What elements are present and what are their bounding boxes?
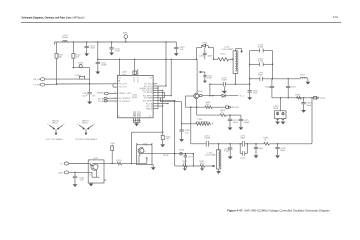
wire vertical x97.8 rail to bias (97, 42, 98, 60)
capacitor C271 (239, 115, 251, 127)
wire bus vertical x174.7 (174, 101, 176, 166)
svg-text:SFB+: SFB+ (123, 32, 129, 34)
wire resonator line y78.8 (249, 78, 300, 79)
wire IC right pin stubs (153, 84, 175, 109)
svg-text:VCO TOP SHIELD: VCO TOP SHIELD (46, 139, 64, 141)
wire vertical x209.9 (209, 84, 210, 96)
wire left long y83.8 (45, 84, 118, 85)
wire E253 line y153.7 (152, 153, 193, 154)
capacitor C252 (96, 59, 108, 71)
capacitor C275 parallel rung (240, 144, 247, 160)
ferrite bead E253 (179, 150, 185, 155)
svg-text:Schematic Diagrams, Overlays,: Schematic Diagrams, Overlays, and Parts … (22, 17, 86, 20)
svg-text:E253: E253 (179, 150, 185, 152)
svg-text:TX_SUPPLY: TX_SUPPLY (119, 101, 131, 103)
resistor R257 zigzag (218, 54, 229, 61)
wire bias line y132.2 (131, 132, 164, 165)
wire coil top tap (235, 49, 242, 53)
capacitor C258 tap with arrow (199, 71, 213, 83)
svg-text:C256: C256 (199, 56, 205, 58)
svg-text:R254: R254 (117, 160, 123, 162)
capacitor C274 series in rail (240, 135, 246, 146)
svg-text:.1uF: .1uF (79, 180, 84, 182)
wire through Q252 bottom (131, 162, 146, 164)
wire Q254 base (185, 96, 193, 107)
svg-text:COILCRAFT: COILCRAFT (205, 154, 218, 157)
svg-text:4.7pF: 4.7pF (207, 77, 213, 79)
capacitor C253 (85, 42, 96, 53)
resistor R254 zigzag (117, 160, 123, 165)
capacitor C262 (82, 92, 91, 101)
resistor R261 zigzag (182, 161, 188, 167)
net flag TX_IO (33, 83, 45, 87)
svg-text:COILCRAFT: COILCRAFT (196, 120, 209, 123)
capacitor C257 series (222, 78, 228, 87)
wire coil line y123.8 (181, 123, 213, 124)
ground stub under C257 (222, 86, 227, 93)
shield arrow 2 (75, 121, 98, 141)
capacitor C259 (258, 45, 264, 53)
inductor L253 (300, 74, 307, 78)
svg-text:.1uF: .1uF (122, 74, 127, 76)
svg-text:10uF: 10uF (253, 93, 258, 95)
svg-text:.1uF: .1uF (179, 49, 184, 51)
wire IC top pin 2 (122, 69, 138, 76)
svg-text:VCC2: VCC2 (137, 76, 139, 82)
svg-text:RX_IO: RX_IO (33, 79, 40, 81)
ground under U251 (134, 123, 139, 126)
capacitor C273 (224, 144, 232, 157)
net flag TX supply (98, 100, 117, 103)
wire coil bottom (235, 73, 236, 84)
capacitor C272 series (204, 135, 211, 146)
svg-text:PRESC_OUT: PRESC_OUT (119, 93, 132, 95)
svg-text:D252: D252 (221, 91, 227, 93)
wire pin tap to C264 (160, 98, 181, 130)
svg-text:RX_BUFF: RX_BUFF (143, 100, 153, 102)
svg-text:COILCRAFT: COILCRAFT (222, 48, 235, 51)
capacitor C269 (301, 98, 312, 110)
svg-text:Q251: Q251 (93, 158, 99, 160)
wire IC top pin 3 (119, 59, 120, 76)
svg-text:R257: R257 (221, 54, 227, 56)
connector flag CTRL (314, 97, 327, 100)
jumper JU251 (75, 75, 85, 79)
wire IC bottom pins (133, 118, 141, 124)
transistor Q254 (194, 91, 204, 99)
svg-text:TX_OUT: TX_OUT (119, 87, 128, 89)
capacitor C260 (258, 58, 264, 66)
svg-text:AUX: AUX (59, 172, 64, 175)
resistor R263 zigzag series (263, 137, 269, 145)
wire RX line y79 (45, 78, 90, 80)
svg-text:BUFF: BUFF (132, 97, 138, 99)
svg-text:8.2pF: 8.2pF (222, 80, 228, 82)
capacitor C278 (275, 144, 286, 156)
ground under C262 (87, 102, 92, 105)
wire loop to coil (214, 59, 233, 60)
node dots on rail (73, 41, 167, 42)
resistor R262b zigzag (199, 161, 205, 167)
capacitor C266 (265, 79, 274, 98)
svg-text:CTRL: CTRL (320, 98, 326, 100)
svg-text:8.2pF: 8.2pF (258, 47, 264, 49)
pin numbers left (114, 82, 117, 103)
transistor Q251 box (88, 158, 106, 183)
svg-text:PLXR: PLXR (163, 155, 169, 157)
wire tap line y166 (175, 165, 216, 167)
ground at Q252 (151, 165, 156, 170)
ground under C273 (228, 156, 233, 159)
svg-text:C266: C266 (265, 86, 271, 88)
wire tap line y84.2 (209, 84, 249, 85)
svg-text:RX_SUPPLY: RX_SUPPLY (119, 98, 132, 100)
svg-text:9.1pF: 9.1pF (224, 151, 230, 153)
wire vertical x193.3 (193, 153, 194, 167)
ground under C263 (247, 97, 252, 100)
supply circle B+ (123, 32, 129, 42)
svg-text:PRESC: PRESC (97, 93, 105, 95)
wire L253 to ground (306, 79, 309, 82)
net flag RX supply (98, 97, 117, 100)
ferrite bead E251 (73, 63, 89, 68)
svg-text:TRB_B: TRB_B (146, 108, 153, 110)
ground under L257 (216, 169, 221, 174)
svg-text:TX_IO: TX_IO (33, 85, 39, 87)
svg-text:130pF: 130pF (204, 137, 211, 139)
wire Q254 output y95.7 (202, 95, 245, 98)
transistor Q253 box (273, 98, 286, 119)
label near flag PLXR (163, 155, 169, 157)
svg-text:18pF: 18pF (306, 105, 311, 107)
wire IC top pin 1 (133, 59, 137, 75)
capacitor C264 (179, 130, 190, 139)
net flag TX in (60, 162, 88, 166)
inductor L255 vertical (110, 143, 115, 163)
ground after L253 (306, 82, 311, 85)
resistor R264 zigzag (297, 97, 302, 99)
svg-text:Q254: Q254 (197, 91, 203, 93)
resistor R260 zigzag (205, 102, 212, 108)
ground under C271 (239, 127, 244, 130)
ground under Q253 left (275, 122, 280, 125)
svg-text:Figure 4-47: UHF (450-512MHz): Figure 4-47: UHF (450-512MHz) Voltage Co… (227, 209, 330, 213)
wire vertical x312 down to rail (311, 98, 312, 144)
svg-text:.5pF: .5pF (259, 148, 264, 150)
ground under C264 (179, 139, 184, 142)
ground under C270 (228, 128, 233, 131)
ground under C278 (275, 155, 280, 158)
wire Q254 emitter vertical (196, 99, 197, 116)
svg-text:D251: D251 (202, 42, 208, 44)
svg-text:JU251: JU251 (75, 75, 82, 77)
wire Q254 collector vertical (196, 59, 198, 93)
resistor R262 (161, 132, 171, 144)
wire bus vertical x158 (157, 86, 159, 109)
svg-text:C275: C275 (240, 158, 246, 160)
net flag RX_IO (33, 78, 45, 82)
wire Q253 ground pins (276, 119, 284, 122)
inductor L251 (55, 35, 69, 45)
header rule (21, 22, 341, 24)
net flag AUX in (59, 171, 89, 175)
shield arrow 1 (46, 121, 65, 141)
wire bus vertical x162.7 (162, 90, 164, 132)
svg-text:100pF: 100pF (101, 65, 108, 67)
ground stub under R261 (183, 167, 187, 171)
capacitor C267 (286, 79, 297, 98)
capacitor C256 inside loop (199, 48, 213, 60)
svg-text:TL_2: TL_2 (240, 96, 246, 98)
svg-text:390nH: 390nH (62, 37, 69, 39)
capacitor C255 at rail end (174, 42, 185, 53)
svg-text:4-63: 4-63 (333, 16, 338, 19)
svg-text:33pF: 33pF (207, 56, 212, 58)
net flag PRESC (97, 92, 117, 95)
ground under C254 (109, 53, 114, 56)
wire bias line y59 (98, 59, 197, 60)
node R252 bead junction (73, 67, 74, 68)
svg-text:TX_BUFF: TX_BUFF (143, 92, 153, 94)
svg-text:SHLD: SHLD (52, 123, 58, 125)
svg-text:.01uF: .01uF (115, 50, 121, 52)
svg-text:TX_BIAS: TX_BIAS (144, 97, 153, 100)
capacitor C261 series in wire (258, 73, 264, 81)
svg-text:.1uF: .1uF (185, 132, 190, 134)
svg-text:R264: R264 (295, 94, 301, 96)
capacitor C276 (254, 144, 264, 156)
resistor R252 (72, 42, 82, 68)
svg-text:Q252: Q252 (143, 143, 149, 145)
ground under Q253 right (281, 122, 286, 125)
capacitor C263 polarized (248, 84, 259, 98)
capacitor C251 (73, 172, 85, 184)
inductor L257 coil box (205, 144, 221, 169)
svg-text:VCC1: VCC1 (134, 76, 136, 82)
ground under C255 (174, 53, 179, 56)
ground under C269 (301, 110, 306, 113)
U251 right pin labels (139, 84, 153, 111)
wire resonator rail y143.8 (191, 143, 311, 144)
ground under R262 (160, 144, 165, 147)
svg-text:.01uF: .01uF (90, 48, 96, 50)
svg-text:.01uF: .01uF (233, 122, 239, 124)
svg-text:C267: C267 (291, 86, 297, 88)
bead E252 output (199, 95, 202, 97)
U251 left pin labels (119, 84, 132, 103)
wire supply rail (55, 41, 177, 42)
resistor R259 zigzag (220, 110, 226, 116)
wire line A y115.1 (197, 114, 241, 115)
svg-text:RX_OUT: RX_OUT (119, 84, 128, 86)
ground under C252 (95, 72, 100, 75)
wire Q251 out (104, 163, 131, 164)
svg-text:C277: C277 (188, 157, 194, 159)
label 5R (92, 96, 95, 98)
ground under Q251 (89, 183, 94, 186)
ground under C251 (73, 184, 78, 187)
svg-text:8.2pF: 8.2pF (258, 60, 264, 62)
svg-text:RX INJ: RX INJ (232, 107, 239, 109)
svg-text:39pF: 39pF (280, 150, 285, 152)
wire vertical rail to bias (165, 42, 167, 86)
svg-text:SHLD: SHLD (82, 123, 88, 125)
svg-text:15pF: 15pF (258, 75, 263, 77)
capacitor C277 (184, 153, 194, 167)
wire vertical x190.8 to rail (190, 107, 191, 144)
ground under C253 (84, 53, 89, 56)
svg-text:100pF: 100pF (244, 122, 251, 124)
svg-text:GND4: GND4 (139, 110, 141, 117)
wire output line y97.8 (272, 94, 316, 98)
op-amp U251 box (117, 75, 153, 117)
inductor L256 zigzag coil (196, 119, 211, 125)
svg-text:VCO BOTTOM SHIELD: VCO BOTTOM SHIELD (75, 139, 98, 141)
wire bead to junction (89, 68, 90, 93)
wire bus vertical x164.5 (160, 92, 164, 97)
capacitor C254 (109, 42, 120, 53)
ground stub under R262b (200, 167, 204, 171)
svg-text:10uF: 10uF (82, 95, 87, 97)
inductor L252 coil box (222, 47, 238, 74)
transistor Q252 box (136, 143, 152, 165)
capacitor C270 (228, 115, 239, 127)
svg-text:E251: E251 (78, 63, 84, 65)
wire IC pin stub left y86.6 (113, 84, 117, 87)
wire bus vertical x171.2 (170, 59, 172, 95)
varactor D251 loop (196, 42, 215, 60)
ground under C276 (254, 155, 259, 158)
resistor R251 (55, 42, 64, 84)
svg-text:36pF: 36pF (240, 137, 245, 139)
capacitor ladder rails (249, 51, 273, 91)
wire buffer out line y107.2 (185, 106, 226, 108)
diode D252 series (221, 91, 227, 97)
connector flag RX INJ (226, 106, 239, 109)
